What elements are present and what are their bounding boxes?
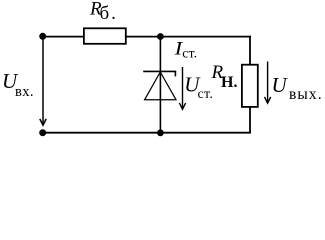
wire middle branch vertical (zener branch) [159,37,161,133]
node: input top terminal dot [39,33,46,40]
label Iст. [174,37,198,61]
svg-text:U: U [272,73,289,97]
svg-text:Н.: Н. [221,74,237,91]
svg-text:ст.: ст. [182,47,197,62]
node: input bottom terminal dot [39,129,46,136]
svg-text:б.: б. [100,3,118,24]
wire right branch vertical [249,36,251,133]
resistor R2 (Rн.) body [242,65,258,107]
wire top horizontal (node A to right corner) [43,36,251,38]
svg-text:вх.: вх. [15,84,34,100]
label Rн. [211,62,238,91]
node: junction dot bottom of zener branch [157,129,164,136]
wire bottom horizontal [43,132,251,134]
label Uст. [184,73,213,103]
arrow Uст direction [179,67,185,109]
resistor R1 (Rб.) body [84,28,126,44]
label Uвх. [2,69,34,100]
arrow Uвых direction [265,62,271,104]
zener diode VD1 cathode bar with wing [143,71,175,76]
zener diode VD1 anode triangle [145,72,176,100]
node: junction dot top of zener branch [157,33,164,40]
svg-text:вых.: вых. [289,86,323,103]
label Rб. [89,0,118,24]
svg-text:ст.: ст. [198,87,214,102]
arrow Uвх direction (left branch) [40,37,46,126]
label Uвых. [272,73,323,103]
